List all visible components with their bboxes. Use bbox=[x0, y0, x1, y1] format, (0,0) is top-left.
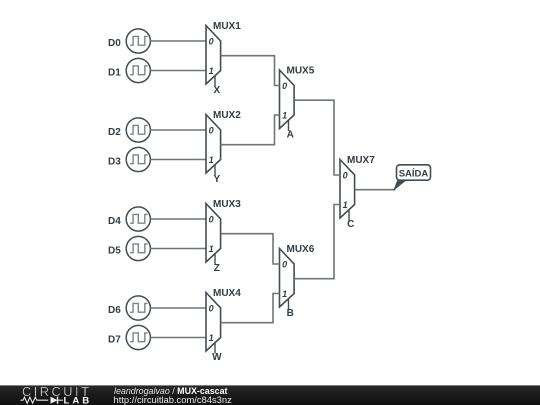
svg-text:Z: Z bbox=[214, 263, 220, 274]
square-wave source D5 bbox=[126, 236, 150, 260]
mux MUX7 bbox=[340, 160, 355, 221]
svg-text:D1: D1 bbox=[108, 67, 121, 78]
svg-text:0: 0 bbox=[209, 304, 214, 314]
CircuitLab logo: resistor zigzag bbox=[21, 397, 49, 403]
output flag SAÍDA bbox=[393, 165, 430, 191]
svg-text:1: 1 bbox=[209, 66, 214, 76]
svg-text:A: A bbox=[287, 130, 294, 141]
svg-text:C: C bbox=[347, 219, 354, 230]
square-wave source D4 bbox=[126, 207, 150, 231]
svg-text:0: 0 bbox=[282, 81, 287, 91]
mux MUX4 bbox=[206, 293, 221, 354]
svg-text:0: 0 bbox=[209, 37, 214, 47]
svg-text:MUX7: MUX7 bbox=[347, 155, 375, 166]
wire D3 to mux input bbox=[150, 159, 206, 161]
svg-text:http://circuitlab.com/c84s3nz: http://circuitlab.com/c84s3nz bbox=[114, 394, 233, 405]
wire D0 to mux input bbox=[150, 40, 206, 42]
svg-text:1: 1 bbox=[282, 289, 287, 299]
wire D1 to mux input bbox=[150, 70, 206, 72]
svg-text:W: W bbox=[212, 352, 222, 363]
wire D5 to mux input bbox=[150, 248, 206, 250]
svg-text:MUX6: MUX6 bbox=[287, 244, 315, 255]
svg-text:0: 0 bbox=[209, 215, 214, 225]
wire MUX2 out to MUX5 in1 bbox=[221, 115, 280, 145]
svg-text:1: 1 bbox=[209, 244, 214, 254]
mux MUX1 bbox=[206, 26, 221, 87]
svg-text:SAÍDA: SAÍDA bbox=[399, 168, 429, 179]
square-wave source D0 bbox=[126, 29, 150, 53]
CircuitLab logo: diode bbox=[51, 397, 58, 404]
svg-text:MUX5: MUX5 bbox=[287, 66, 315, 77]
wire MUX3 out to MUX6 in0 bbox=[221, 234, 280, 264]
svg-text:B: B bbox=[287, 308, 294, 319]
square-wave source D3 bbox=[126, 147, 150, 171]
wire D2 to mux input bbox=[150, 129, 206, 131]
svg-text:MUX2: MUX2 bbox=[213, 110, 241, 121]
svg-text:D7: D7 bbox=[108, 334, 121, 345]
wire MUX7 out to SAIDA flag bbox=[355, 189, 396, 191]
wire MUX6 out to MUX7 in1 bbox=[294, 205, 340, 279]
svg-text:D5: D5 bbox=[108, 245, 121, 256]
svg-text:MUX1: MUX1 bbox=[213, 21, 241, 32]
svg-text:0: 0 bbox=[343, 171, 348, 181]
mux MUX6 bbox=[280, 249, 295, 310]
square-wave source D7 bbox=[126, 325, 150, 349]
svg-text:1: 1 bbox=[343, 200, 348, 210]
svg-text:1: 1 bbox=[209, 155, 214, 165]
mux MUX5 bbox=[280, 70, 295, 131]
wire MUX4 out to MUX6 in1 bbox=[221, 294, 280, 323]
footer bar bbox=[0, 384, 540, 405]
square-wave source D1 bbox=[126, 58, 150, 82]
svg-text:LAB: LAB bbox=[64, 396, 93, 405]
svg-text:D3: D3 bbox=[108, 156, 121, 167]
svg-text:0: 0 bbox=[282, 260, 287, 270]
wire D4 to mux input bbox=[150, 218, 206, 220]
mux MUX2 bbox=[206, 115, 221, 176]
wire MUX1 out to MUX5 in0 bbox=[221, 56, 280, 86]
svg-text:X: X bbox=[213, 85, 220, 96]
svg-text:D4: D4 bbox=[108, 216, 121, 227]
wire D7 to mux input bbox=[150, 337, 206, 339]
svg-text:MUX4: MUX4 bbox=[213, 288, 241, 299]
svg-text:1: 1 bbox=[282, 111, 287, 121]
square-wave source D6 bbox=[126, 296, 150, 320]
svg-text:MUX3: MUX3 bbox=[213, 199, 241, 210]
svg-text:0: 0 bbox=[209, 126, 214, 136]
mux MUX3 bbox=[206, 204, 221, 265]
svg-text:Y: Y bbox=[213, 174, 220, 185]
square-wave source D2 bbox=[126, 118, 150, 142]
wire D6 to mux input bbox=[150, 307, 206, 309]
svg-text:D6: D6 bbox=[108, 305, 121, 316]
svg-text:D0: D0 bbox=[108, 38, 121, 49]
wire MUX5 out to MUX7 in0 bbox=[294, 100, 340, 175]
svg-text:D2: D2 bbox=[108, 127, 121, 138]
svg-text:1: 1 bbox=[209, 333, 214, 343]
